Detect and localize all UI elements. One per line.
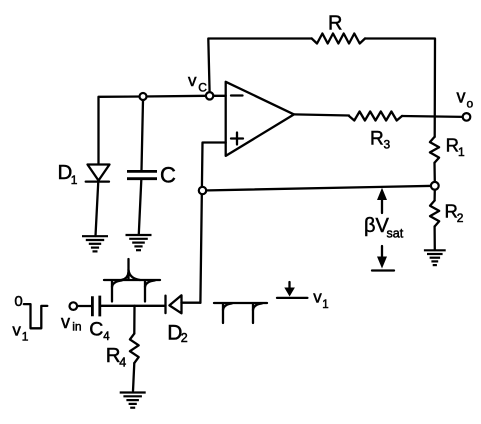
wire R1 to node	[433, 163, 436, 182]
wire noninverting input down to D2 line	[200, 143, 225, 303]
svg-text:3: 3	[384, 138, 391, 152]
resistor R1	[430, 137, 439, 163]
svg-text:4: 4	[119, 355, 126, 369]
wire R2 to ground	[433, 227, 435, 251]
svg-text:0: 0	[14, 293, 22, 310]
wire op-amp output	[294, 114, 349, 115]
resistor R	[312, 34, 365, 44]
wire vC left to D1 branch	[99, 96, 207, 164]
ground under R2	[424, 250, 446, 265]
op-amp U1	[226, 82, 294, 156]
svg-text:C: C	[89, 318, 103, 340]
resistor R2	[430, 201, 439, 227]
ground under D1	[82, 236, 108, 251]
waveform differentiated spikes before D2	[104, 259, 160, 302]
annotation beta Vsat upper arrow	[381, 199, 383, 213]
wire top feedback left (vC node up and across to R)	[208, 39, 311, 93]
node noninverting	[199, 187, 206, 194]
svg-text:o: o	[467, 97, 474, 111]
svg-text:R: R	[328, 13, 342, 35]
svg-text:1: 1	[458, 145, 465, 159]
svg-text:v: v	[12, 321, 21, 340]
wire R4 to ground	[133, 363, 134, 391]
svg-text:sat: sat	[387, 227, 404, 241]
ground under R4	[120, 393, 146, 408]
node R1 R2 junction	[431, 182, 439, 190]
waveform spikes after D2	[214, 303, 267, 323]
svg-text:v: v	[188, 71, 197, 90]
wire D1 to ground	[96, 183, 99, 236]
svg-text:1: 1	[22, 329, 29, 343]
wire C4 to D2	[101, 305, 165, 307]
svg-text:R: R	[370, 129, 384, 150]
resistor R3	[349, 112, 402, 121]
wire bottom horizontal (node to divider)	[203, 186, 435, 191]
svg-text:1: 1	[71, 173, 78, 187]
annotation v1 level arrow	[288, 282, 290, 289]
wire top feedback right (R to output branch down to R1)	[365, 39, 435, 137]
svg-text:v: v	[457, 87, 466, 107]
svg-text:C: C	[160, 163, 176, 188]
capacitor C4	[92, 296, 99, 317]
svg-text:v: v	[313, 288, 322, 307]
svg-text:in: in	[72, 320, 81, 334]
wire D2 to noninverting branch	[182, 302, 201, 304]
wire vin to C4	[77, 305, 91, 307]
diode D1	[86, 165, 110, 182]
capacitor C	[127, 171, 157, 178]
wire R3 to vo terminal	[402, 115, 463, 118]
node vC	[206, 92, 213, 99]
diode D2	[166, 295, 182, 313]
wire vC node to inverting input	[213, 95, 225, 97]
svg-text:v: v	[61, 312, 70, 332]
node C junction	[140, 93, 147, 100]
op-amp plus sign	[231, 133, 243, 145]
resistor R4 branch wire	[133, 306, 135, 334]
wire C branch upper	[142, 100, 144, 170]
wire node to R2	[433, 190, 435, 201]
svg-text:4: 4	[103, 331, 110, 343]
wire C to ground	[139, 180, 142, 234]
resistor R4	[130, 334, 139, 364]
annotation beta Vsat lower arrow	[381, 246, 383, 258]
terminal vo	[463, 113, 471, 121]
svg-text:R: R	[446, 134, 459, 155]
terminal vin	[70, 302, 78, 310]
svg-text:1: 1	[322, 299, 328, 311]
svg-text:2: 2	[181, 331, 188, 345]
op-amp minus sign	[231, 94, 243, 96]
svg-text:C: C	[198, 81, 207, 95]
svg-text:2: 2	[457, 211, 464, 225]
ground under C	[126, 235, 152, 250]
